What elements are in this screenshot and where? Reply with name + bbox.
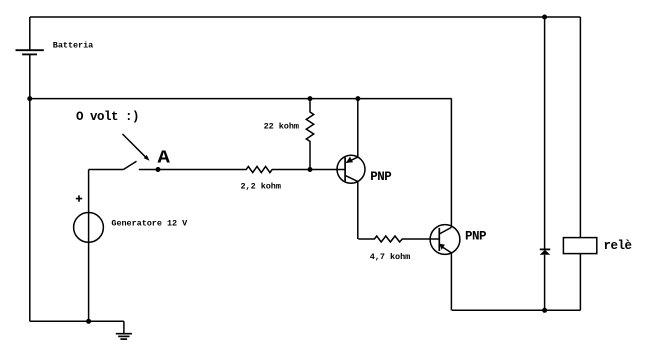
- svg-text:PNP: PNP: [370, 170, 391, 184]
- svg-text:O volt :): O volt :): [76, 110, 139, 124]
- svg-text:PNP: PNP: [465, 229, 486, 243]
- svg-text:Batteria: Batteria: [53, 41, 93, 51]
- svg-text:A: A: [158, 148, 171, 168]
- svg-text:4,7 kohm: 4,7 kohm: [370, 252, 410, 262]
- svg-text:22 kohm: 22 kohm: [264, 122, 299, 132]
- svg-text:relè: relè: [604, 239, 632, 253]
- svg-text:2,2 kohm: 2,2 kohm: [241, 182, 281, 192]
- svg-text:Generatore 12 V: Generatore 12 V: [111, 218, 188, 228]
